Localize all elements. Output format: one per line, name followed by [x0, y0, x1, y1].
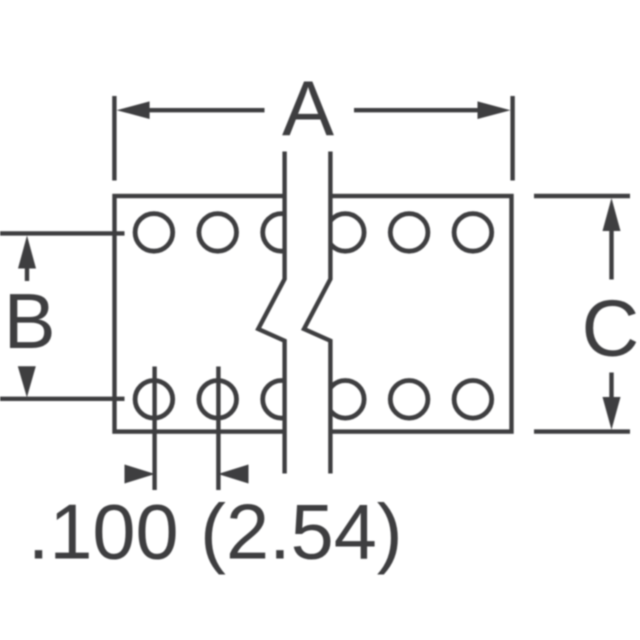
dim B arrow tail top	[25, 266, 29, 281]
break line left	[258, 152, 284, 474]
top row holes	[135, 214, 492, 252]
dim A line left segment	[130, 108, 265, 112]
dim C arrow tail top	[609, 229, 613, 280]
dim A extension line right	[510, 96, 514, 181]
dim C arrowhead down	[603, 397, 621, 430]
dim A arrowhead right	[478, 101, 511, 119]
dim .100 extension line 1	[152, 367, 156, 491]
dim .100 arrowhead left	[125, 465, 156, 484]
dim .100 extension line 2	[216, 367, 220, 491]
dim C arrowhead up	[603, 198, 621, 231]
dim B extension line bottom	[0, 397, 125, 401]
dim C extension line top	[534, 194, 630, 198]
svg-text:A: A	[282, 64, 334, 152]
dim B arrowhead up	[18, 236, 36, 269]
dim A line right segment	[354, 108, 497, 112]
dim B extension line top	[0, 231, 125, 235]
dim A extension line left	[112, 96, 116, 181]
break gap mask	[258, 148, 330, 476]
connector body outline	[115, 196, 512, 432]
svg-text:C: C	[582, 284, 640, 373]
dim .100 arrowhead right	[218, 465, 249, 484]
dim C extension line bottom	[534, 429, 630, 433]
dim B arrowhead down	[18, 366, 36, 397]
break line right	[304, 152, 330, 474]
bottom row holes	[135, 381, 492, 419]
dim A arrowhead left	[117, 101, 150, 119]
svg-text:.100 (2.54): .100 (2.54)	[28, 489, 403, 575]
svg-text:B: B	[4, 277, 56, 365]
dim C arrow tail bottom	[609, 373, 613, 400]
